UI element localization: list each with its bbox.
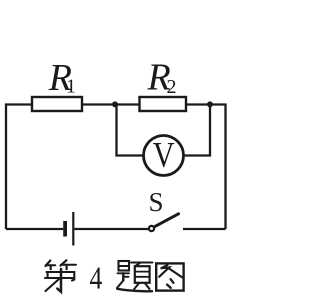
resistor R2: [140, 97, 187, 111]
caption glyph TI right component YE: [131, 263, 153, 290]
node B junction dot: [207, 101, 213, 107]
battery cell negative plate: [63, 221, 67, 237]
wire top-left segment to R1: [6, 105, 32, 230]
svg-text:S: S: [149, 187, 164, 217]
wire node A down to voltmeter: [115, 105, 143, 156]
caption glyph DI (first) bamboo radical: [46, 260, 77, 269]
wire voltmeter to node B: [185, 105, 211, 156]
wire bottom-right to switch: [183, 228, 226, 230]
svg-text:V: V: [153, 135, 175, 175]
node A junction dot: [112, 101, 118, 107]
caption glyph TU inner ZHONG: [159, 265, 182, 288]
wire battery to bottom-left corner: [6, 228, 63, 230]
switch S lever: [155, 214, 179, 227]
wire R1 to R2 through node A: [82, 103, 140, 105]
svg-text:4: 4: [90, 261, 103, 296]
svg-text:1: 1: [66, 76, 76, 98]
svg-text:2: 2: [167, 76, 177, 98]
caption glyph DI lower part: [45, 269, 74, 292]
resistor R1: [32, 97, 82, 111]
switch S pivot: [149, 226, 154, 231]
voltmeter V: [144, 136, 184, 176]
wire R2 to top-right corner: [186, 105, 226, 230]
battery cell positive plate: [72, 212, 74, 246]
caption glyph TI (question) left component SHI: [117, 261, 152, 291]
caption glyph TU (figure) box: [156, 263, 183, 290]
wire switch to battery: [74, 228, 148, 230]
